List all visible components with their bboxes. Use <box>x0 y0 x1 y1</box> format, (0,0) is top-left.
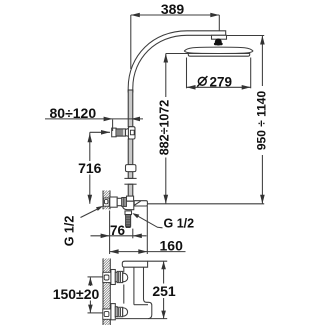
dim Ø279 <box>187 58 251 90</box>
back face <box>123 267 125 272</box>
arm end plate <box>212 35 227 39</box>
svg-text:389: 389 <box>161 1 185 17</box>
svg-text:G 1/2: G 1/2 <box>164 217 195 231</box>
seam <box>133 267 135 305</box>
bottom view: lower wall union <box>103 304 128 320</box>
lever handle <box>134 201 147 206</box>
svg-text:882÷1072: 882÷1072 <box>158 100 172 156</box>
bottom view: upper wall union <box>103 270 128 285</box>
slider block <box>126 165 136 172</box>
escutcheon <box>110 197 117 207</box>
wall bracket <box>112 127 135 139</box>
dim 389 <box>131 1 220 69</box>
svg-text:716: 716 <box>78 160 102 176</box>
shower arm (curved) <box>128 31 226 92</box>
svg-text:251: 251 <box>152 283 176 299</box>
label G 1/2 (left, rotated) <box>63 206 104 246</box>
tube break flanges <box>124 177 136 179</box>
handshower outlet nipple <box>125 211 132 228</box>
svg-text:950 ÷ 1140: 950 ÷ 1140 <box>255 91 269 151</box>
dim 150±20 <box>53 277 103 313</box>
mixer body (profile) <box>110 196 148 210</box>
top cap <box>122 261 147 267</box>
svg-text:76: 76 <box>110 223 126 238</box>
ball joint <box>215 39 222 46</box>
label G 1/2 (right) <box>132 213 194 230</box>
dim 251 <box>148 261 176 318</box>
dim 76 <box>91 211 147 255</box>
body collar <box>127 196 134 201</box>
column tube <box>124 90 136 196</box>
svg-text:279: 279 <box>210 74 233 89</box>
dim 882÷1072 <box>158 54 192 204</box>
svg-text:150±20: 150±20 <box>53 286 100 302</box>
bottom view: wall (hatched) <box>103 259 110 325</box>
mixer wall (hatched) <box>103 191 110 210</box>
body outline <box>116 267 152 318</box>
body lobe <box>122 201 134 210</box>
dim 950÷1140 (right) <box>227 36 269 204</box>
shower head <box>184 47 253 56</box>
dim 80÷120 <box>45 105 143 131</box>
dim 160 <box>110 206 186 254</box>
svg-text:G 1/2: G 1/2 <box>63 216 77 247</box>
baseline (outlet axis) <box>147 203 264 205</box>
dim 716 <box>78 130 110 204</box>
svg-text:160: 160 <box>160 238 184 254</box>
bottom view: mixer body <box>116 261 152 318</box>
